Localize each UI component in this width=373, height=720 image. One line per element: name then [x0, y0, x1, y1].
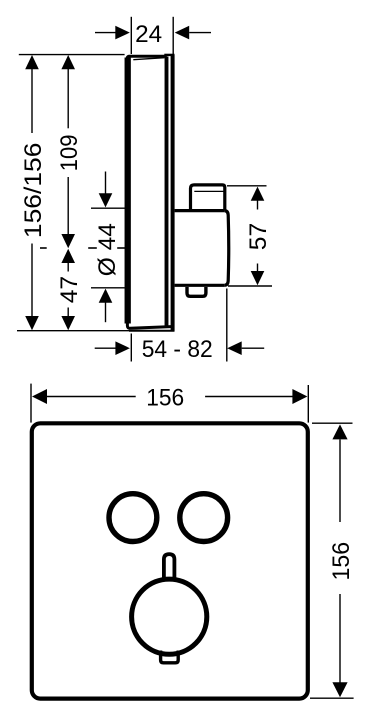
svg-text:156: 156	[328, 542, 355, 581]
svg-text:24: 24	[135, 21, 162, 48]
svg-text:156: 156	[146, 384, 184, 411]
svg-text:156/156: 156/156	[20, 143, 47, 239]
svg-text:109: 109	[56, 135, 83, 172]
svg-text:47: 47	[56, 276, 83, 303]
svg-text:54 - 82: 54 - 82	[142, 336, 213, 363]
svg-text:Ø 44: Ø 44	[94, 223, 121, 276]
svg-text:57: 57	[245, 223, 272, 250]
